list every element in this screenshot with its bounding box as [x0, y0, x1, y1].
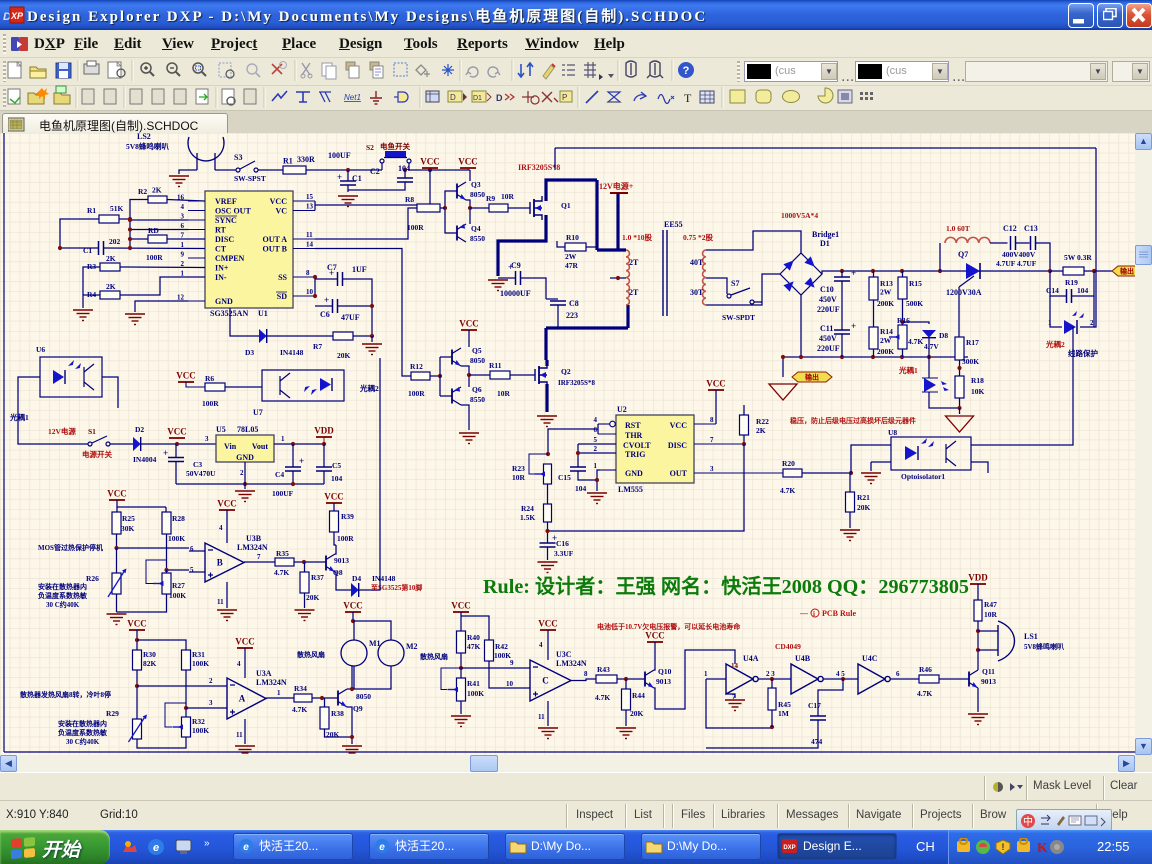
- svg-text:GND: GND: [625, 469, 643, 478]
- svg-text:9013: 9013: [656, 677, 671, 686]
- svg-text:5W 0.3R: 5W 0.3R: [1064, 253, 1092, 262]
- diode D3 IN4148: [245, 329, 304, 357]
- svg-text:i: i: [813, 610, 815, 618]
- svg-text:OUT: OUT: [670, 469, 688, 478]
- wire vcc rail: [117, 500, 166, 507]
- wire L1 to C12: [990, 242, 1008, 244]
- svg-text:20K: 20K: [337, 351, 351, 360]
- svg-text:LM324N: LM324N: [237, 543, 268, 552]
- wire to C7: [315, 278, 338, 280]
- svg-text:IN-: IN-: [215, 273, 227, 282]
- junction: [900, 355, 904, 359]
- wire C16 bottom: [547, 547, 549, 560]
- svg-text:至SG3525第10脚: 至SG3525第10脚: [371, 583, 422, 592]
- svg-text:VCC: VCC: [217, 499, 237, 509]
- power VCC (U2): [706, 379, 726, 391]
- svg-text:R1: R1: [283, 157, 293, 166]
- svg-text:»: »: [204, 838, 210, 849]
- svg-text:100R: 100R: [146, 253, 163, 262]
- svg-text:S1: S1: [88, 427, 96, 436]
- junction: [370, 304, 374, 308]
- junction: [595, 478, 599, 482]
- svg-text:500K: 500K: [906, 299, 923, 308]
- wire R8 right: [440, 207, 445, 209]
- wire C15 top: [577, 453, 579, 467]
- svg-text:U3B: U3B: [246, 534, 262, 543]
- wire to R31: [137, 640, 186, 650]
- power VDD (R47): [968, 573, 988, 585]
- svg-text:2: 2: [240, 469, 244, 477]
- junction: [1092, 269, 1096, 273]
- svg-text:20K: 20K: [630, 709, 644, 718]
- svg-text:SYNC: SYNC: [215, 216, 237, 225]
- wire R27 top: [166, 570, 168, 573]
- svg-text:RD: RD: [148, 226, 159, 235]
- junction: [291, 482, 295, 486]
- svg-text:光耦2: 光耦2: [359, 383, 379, 393]
- power bar 12V: [610, 192, 628, 194]
- wire R32 wiper loop: [165, 703, 186, 727]
- wire R14 bottom: [873, 349, 875, 357]
- wire R42 top: [461, 616, 489, 640]
- capacitor C7 1UF: [327, 263, 367, 286]
- svg-text:R27: R27: [172, 581, 185, 590]
- wire speaker top: [978, 630, 998, 632]
- wire rail to L1: [939, 243, 941, 271]
- capacitor C15 104: [558, 467, 587, 493]
- svg-text:C16: C16: [556, 539, 569, 548]
- ground (C9): [488, 280, 508, 291]
- wire C15 bottom: [578, 471, 597, 491]
- svg-text:3.3UF: 3.3UF: [554, 549, 574, 558]
- wire Q8 collector: [335, 545, 336, 554]
- svg-text:R44: R44: [632, 691, 645, 700]
- svg-text:R11: R11: [489, 361, 502, 370]
- wire D2 to U5: [141, 443, 216, 445]
- wire emitters tie: [466, 200, 470, 224]
- wire SYNC left: [130, 219, 188, 221]
- svg-text:C: C: [542, 676, 549, 686]
- svg-text:4.7V: 4.7V: [924, 342, 939, 351]
- junction: [58, 246, 62, 250]
- power VCC (rail 1): [420, 157, 440, 169]
- junction: [370, 334, 374, 338]
- power VCC (R6): [176, 371, 196, 383]
- inverter U4C: [858, 654, 890, 694]
- junction: [545, 529, 549, 533]
- wire vcc to U3B: [226, 510, 228, 543]
- wire R39 to Q8: [334, 532, 336, 545]
- ground (R21): [840, 530, 860, 541]
- ground (buzzer): [169, 176, 189, 187]
- svg-text:OUT B: OUT B: [262, 245, 287, 254]
- resistor R7 20K: [313, 332, 353, 360]
- wire vcc stub: [467, 168, 469, 170]
- junction: [128, 237, 132, 241]
- svg-text:R9: R9: [486, 194, 495, 203]
- svg-text:47K: 47K: [467, 642, 481, 651]
- wire to C17: [818, 679, 843, 716]
- wire top net left end: [554, 148, 556, 170]
- wire R15-R16: [902, 299, 904, 325]
- wire to pin3: [186, 707, 227, 709]
- capacitor C11 220UF 450V: [817, 321, 856, 353]
- wire R3 left: [83, 267, 100, 295]
- wire to Q6 base: [440, 395, 452, 397]
- svg-text:100R: 100R: [337, 534, 354, 543]
- ground (R3/R4): [73, 310, 93, 321]
- ground (U8): [861, 473, 881, 484]
- svg-text:T: T: [684, 91, 692, 105]
- wire R23 wiper loop: [529, 454, 548, 474]
- wire RT left: [130, 229, 188, 231]
- svg-text:8550: 8550: [470, 234, 485, 243]
- svg-text:9013: 9013: [334, 556, 349, 565]
- wire U8 to LED2 net: [971, 327, 1073, 445]
- wire U8 LED low: [871, 461, 891, 463]
- U2 pin stubs left: [598, 424, 616, 470]
- power VCC (D4/motors): [343, 601, 363, 613]
- transistor Q1 IRF3205: [530, 196, 571, 220]
- resistor R35 4.7K: [274, 549, 294, 577]
- svg-text:—: —: [799, 609, 809, 618]
- svg-text:D2: D2: [135, 425, 144, 434]
- optocoupler U6 body: [40, 357, 102, 397]
- wire R34 to Q9: [312, 697, 338, 699]
- junction: [114, 546, 118, 550]
- resistor R21 20K: [846, 492, 871, 512]
- thermistor R29: [106, 709, 147, 742]
- wire to pin2: [137, 685, 227, 687]
- optocoupler U7 phototransistor: [280, 373, 290, 398]
- svg-text:+: +: [299, 456, 304, 466]
- svg-text:223: 223: [566, 311, 578, 320]
- op-amp U3A LM324N: [227, 669, 287, 719]
- wire vcc to R6: [186, 382, 205, 387]
- svg-text:RST: RST: [625, 421, 641, 430]
- svg-text:IN+: IN+: [215, 264, 229, 273]
- wire SS-SD bus: [314, 277, 316, 296]
- power VCC (R39): [324, 492, 344, 504]
- svg-text:B: B: [217, 558, 223, 568]
- svg-text:C1: C1: [83, 246, 92, 255]
- svg-text:PCB Rule: PCB Rule: [822, 609, 856, 618]
- junction: [770, 725, 774, 729]
- wire to R28: [165, 507, 167, 512]
- wire to LED2: [1050, 296, 1062, 327]
- svg-text:C13: C13: [1024, 224, 1038, 233]
- wire vcc to R39: [333, 503, 335, 511]
- wire HV- rail: [783, 356, 968, 358]
- wire R41 wiper loop: [441, 668, 461, 690]
- svg-text:6: 6: [190, 545, 194, 553]
- svg-text:Net1: Net1: [344, 93, 361, 102]
- svg-text:R38: R38: [331, 709, 344, 718]
- junction: [313, 294, 317, 298]
- svg-text:11: 11: [217, 598, 224, 606]
- svg-text:VCC: VCC: [670, 421, 688, 430]
- ground (Q11): [968, 714, 988, 725]
- resistor R37 20K: [300, 572, 324, 602]
- resistor R40 47K: [457, 631, 481, 653]
- wire R30-R29: [136, 670, 138, 719]
- svg-text:4.7K: 4.7K: [274, 568, 289, 577]
- svg-text:3: 3: [181, 213, 185, 221]
- svg-text:P: P: [562, 93, 567, 102]
- junction: [313, 275, 317, 279]
- svg-text:R20: R20: [782, 459, 795, 468]
- svg-text:7: 7: [181, 232, 185, 240]
- junction: [938, 269, 942, 273]
- svg-text:12V电源+: 12V电源+: [599, 181, 634, 191]
- wire vcc to R30: [136, 630, 138, 650]
- wire R40-R41: [460, 653, 462, 678]
- transistor Q2 IRF3205: [535, 363, 595, 387]
- wire VCC to Q5: [468, 330, 470, 347]
- wire C3 top: [175, 444, 177, 458]
- wire C3 bottom: [175, 462, 177, 485]
- svg-text:R31: R31: [192, 650, 205, 659]
- svg-text:IRF3205S*8: IRF3205S*8: [518, 163, 560, 172]
- IME floating bar: [1016, 809, 1112, 831]
- svg-text:VCC: VCC: [107, 489, 127, 499]
- ground (R7): [362, 344, 382, 355]
- ground (HV- hollow): [769, 384, 797, 400]
- switch S2 (电鱼开关 push button): [380, 151, 411, 170]
- ground (U3A): [235, 746, 255, 757]
- svg-text:5: 5: [594, 436, 598, 444]
- svg-text:EE55: EE55: [664, 220, 683, 229]
- svg-text:13: 13: [306, 203, 314, 211]
- svg-text:C11: C11: [820, 324, 833, 333]
- svg-text:VCC: VCC: [459, 319, 479, 329]
- U2 pin numbers right: [710, 416, 714, 473]
- svg-text:DISC: DISC: [668, 441, 687, 450]
- svg-text:R6: R6: [205, 374, 214, 383]
- potentiometer R27 100K: [153, 573, 186, 600]
- junction: [346, 168, 350, 172]
- transistor Q10 9013: [645, 667, 672, 688]
- svg-text:CVOLT: CVOLT: [623, 441, 651, 450]
- svg-text:C3: C3: [193, 460, 202, 469]
- svg-text:300K: 300K: [962, 357, 979, 366]
- junction: [135, 684, 139, 688]
- wire to C9: [498, 277, 515, 279]
- wire R47 to Q11: [977, 621, 979, 670]
- wire U4A out: [759, 678, 792, 680]
- ground (U2/C15): [587, 493, 607, 504]
- wire to R23 node: [548, 429, 598, 454]
- wire R37 bottom: [304, 593, 306, 608]
- svg-text:R21: R21: [857, 493, 870, 502]
- svg-text:8: 8: [710, 416, 714, 424]
- wire buzzer to ground: [179, 170, 197, 174]
- junction: [459, 666, 463, 670]
- svg-text:9: 9: [181, 251, 185, 259]
- svg-text:Q11: Q11: [982, 667, 995, 676]
- svg-text:CMPEN: CMPEN: [215, 254, 245, 263]
- svg-text:2K: 2K: [152, 186, 162, 195]
- svg-text:K: K: [1037, 841, 1048, 856]
- svg-text:OSC OUT: OSC OUT: [215, 207, 251, 216]
- ground (R41): [451, 716, 471, 727]
- wire C12-C13: [1016, 242, 1030, 244]
- svg-text:5V8蜂鸣喇叭: 5V8蜂鸣喇叭: [1024, 642, 1064, 651]
- svg-text:100K: 100K: [494, 651, 511, 660]
- svg-text:TRIG: TRIG: [625, 450, 645, 459]
- wire U5 out: [274, 443, 324, 445]
- capacitor C4 100UF: [275, 456, 304, 479]
- svg-text:Q6: Q6: [472, 385, 482, 394]
- junction: [1048, 269, 1052, 273]
- wire U3A out: [266, 697, 294, 699]
- svg-text:VDD: VDD: [314, 426, 334, 436]
- svg-text:4: 4: [219, 524, 223, 532]
- wire U5 GND: [244, 462, 246, 484]
- capacitor C1 100UF: [337, 172, 362, 185]
- svg-text:R15: R15: [909, 279, 922, 288]
- junction: [957, 406, 961, 410]
- resistor R6 100K: [202, 374, 225, 408]
- power VCC (D2): [167, 427, 187, 439]
- svg-text:1200V30A: 1200V30A: [946, 288, 982, 297]
- svg-text:11: 11: [306, 231, 313, 239]
- svg-text:1: 1: [181, 270, 185, 278]
- wire R38 top: [324, 698, 326, 707]
- svg-text:SS: SS: [278, 273, 287, 282]
- svg-text:R32: R32: [192, 717, 205, 726]
- wire U3C out: [571, 679, 596, 681]
- junction: [770, 677, 774, 681]
- wire R46 to Q11: [939, 678, 969, 680]
- svg-text:MOS管过热保护停机: MOS管过热保护停机: [38, 543, 103, 552]
- svg-text:8550: 8550: [470, 395, 485, 404]
- resistor R3 2K: [87, 254, 120, 271]
- wire C1 top: [347, 170, 349, 181]
- capacitor C10 220UF 450V: [817, 268, 856, 314]
- capacitor C8 223: [550, 299, 579, 320]
- svg-text:VCC: VCC: [458, 157, 478, 167]
- junction: [576, 451, 580, 455]
- diode D2 IN4004: [133, 425, 157, 464]
- wire R10 left: [557, 241, 565, 247]
- ground (U3B): [217, 610, 237, 621]
- svg-text:C9: C9: [511, 261, 521, 270]
- svg-text:Q3: Q3: [471, 180, 481, 189]
- wire R18 bottom: [959, 398, 961, 408]
- svg-text:R8: R8: [405, 195, 414, 204]
- wire Q8 emitter to D4: [335, 572, 351, 590]
- wire C1b left: [60, 247, 99, 249]
- wire to U8 LED: [851, 445, 891, 473]
- wire R35 to Q8: [294, 561, 326, 563]
- wire HV- down: [800, 295, 802, 357]
- svg-text:20K: 20K: [857, 503, 871, 512]
- svg-text:100K: 100K: [192, 659, 209, 668]
- junction: [128, 217, 132, 221]
- junction: [840, 269, 844, 273]
- svg-text:4: 4: [539, 641, 543, 649]
- svg-text:R29: R29: [106, 709, 119, 718]
- svg-text:R16: R16: [897, 316, 910, 325]
- svg-text:30K: 30K: [121, 524, 135, 533]
- junction: [840, 355, 844, 359]
- wire C6 right: [338, 305, 373, 307]
- svg-text:47R: 47R: [565, 261, 579, 270]
- junction: [624, 677, 628, 681]
- junction: [546, 452, 550, 456]
- svg-text:3: 3: [710, 465, 714, 473]
- capacitor C3 470UF 50V: [163, 448, 216, 478]
- svg-text:R34: R34: [294, 684, 307, 693]
- svg-text:VC: VC: [275, 207, 287, 216]
- wire R2 to pin16: [167, 200, 205, 202]
- wire RST-THR tie: [597, 424, 599, 434]
- resistor R42 100K: [485, 640, 512, 661]
- svg-text:8050: 8050: [356, 692, 371, 701]
- svg-text:U4C: U4C: [862, 654, 878, 663]
- capacitor C1 202: [83, 237, 121, 255]
- svg-text:S7: S7: [731, 279, 739, 288]
- svg-text:Q9: Q9: [353, 704, 363, 713]
- svg-text:100K: 100K: [192, 726, 209, 735]
- ground (U1 GND): [125, 314, 145, 325]
- buzzer LS2: [188, 137, 224, 170]
- svg-text:5V8蜂鸣喇叭: 5V8蜂鸣喇叭: [126, 141, 169, 151]
- svg-text:R35: R35: [276, 549, 289, 558]
- wire to C6: [315, 305, 333, 307]
- svg-text:散热风扇: 散热风扇: [420, 652, 448, 661]
- svg-text:Q2: Q2: [561, 367, 571, 376]
- svg-text:C10: C10: [820, 285, 834, 294]
- wire R16 bottom: [902, 349, 904, 357]
- wire C8 bottom: [557, 305, 559, 328]
- svg-text:104: 104: [398, 164, 410, 173]
- svg-text:C7: C7: [327, 263, 337, 272]
- optocoupler U7 LED: [304, 378, 332, 395]
- wire motor tops: [354, 621, 391, 640]
- wire R4 left: [83, 294, 100, 296]
- wire R3 to IN+: [120, 266, 205, 269]
- svg-text:IN4148: IN4148: [280, 348, 304, 357]
- svg-text:D: D: [450, 93, 456, 102]
- svg-text:1: 1: [281, 435, 285, 443]
- svg-text:U1: U1: [258, 309, 268, 318]
- wire U3C gnd: [547, 701, 549, 726]
- wire D8 bottom: [928, 338, 930, 357]
- wire: [258, 169, 283, 171]
- svg-text:7: 7: [710, 436, 714, 444]
- transistor Q4 8550: [457, 224, 485, 243]
- wire to D8: [903, 322, 930, 324]
- junction: [403, 168, 407, 172]
- svg-text:LS2: LS2: [137, 133, 151, 141]
- wire R27 bottom: [117, 594, 167, 612]
- resistor R4 2K: [87, 282, 120, 299]
- wire DISC feedback: [547, 444, 744, 531]
- wire R13 top: [873, 271, 875, 277]
- optocoupler U7 body: [262, 370, 344, 401]
- thermistor R26: [86, 569, 127, 598]
- wire vcc to R40: [460, 612, 462, 631]
- wire C10 top: [841, 271, 843, 277]
- resistor R45 1M: [768, 688, 791, 718]
- svg-text:6: 6: [896, 670, 900, 678]
- svg-text:6: 6: [181, 222, 185, 230]
- wire Q3 base: [445, 191, 457, 208]
- capacitor C17 474: [808, 701, 826, 746]
- transient SCR Q7: [959, 263, 980, 287]
